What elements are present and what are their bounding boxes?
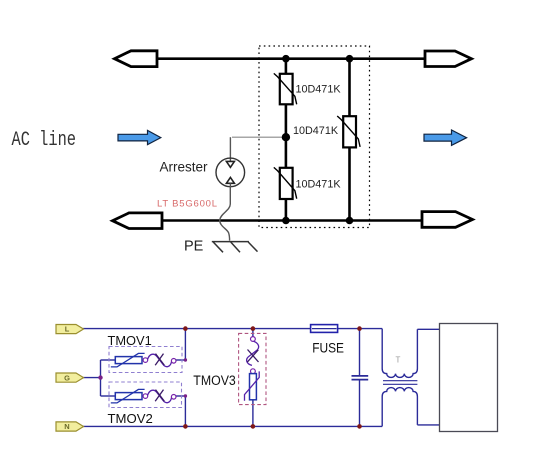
svg-text:TMOV3: TMOV3 — [193, 373, 236, 388]
svg-text:10D471K: 10D471K — [296, 84, 342, 96]
svg-text:Arrester: Arrester — [160, 160, 209, 175]
svg-text:PE: PE — [184, 239, 204, 255]
svg-text:FUSE: FUSE — [312, 339, 344, 355]
svg-text:10D471K: 10D471K — [296, 179, 342, 191]
svg-text:10D471K: 10D471K — [293, 125, 339, 137]
svg-text:TMOV1: TMOV1 — [108, 334, 152, 348]
svg-text:LT B5G600L: LT B5G600L — [157, 199, 217, 210]
svg-text:G: G — [64, 373, 70, 382]
svg-text:T: T — [396, 356, 401, 365]
svg-text:L: L — [65, 325, 70, 334]
svg-text:AC line: AC line — [12, 129, 77, 152]
svg-text:TMOV2: TMOV2 — [108, 412, 153, 426]
svg-text:N: N — [64, 422, 69, 431]
